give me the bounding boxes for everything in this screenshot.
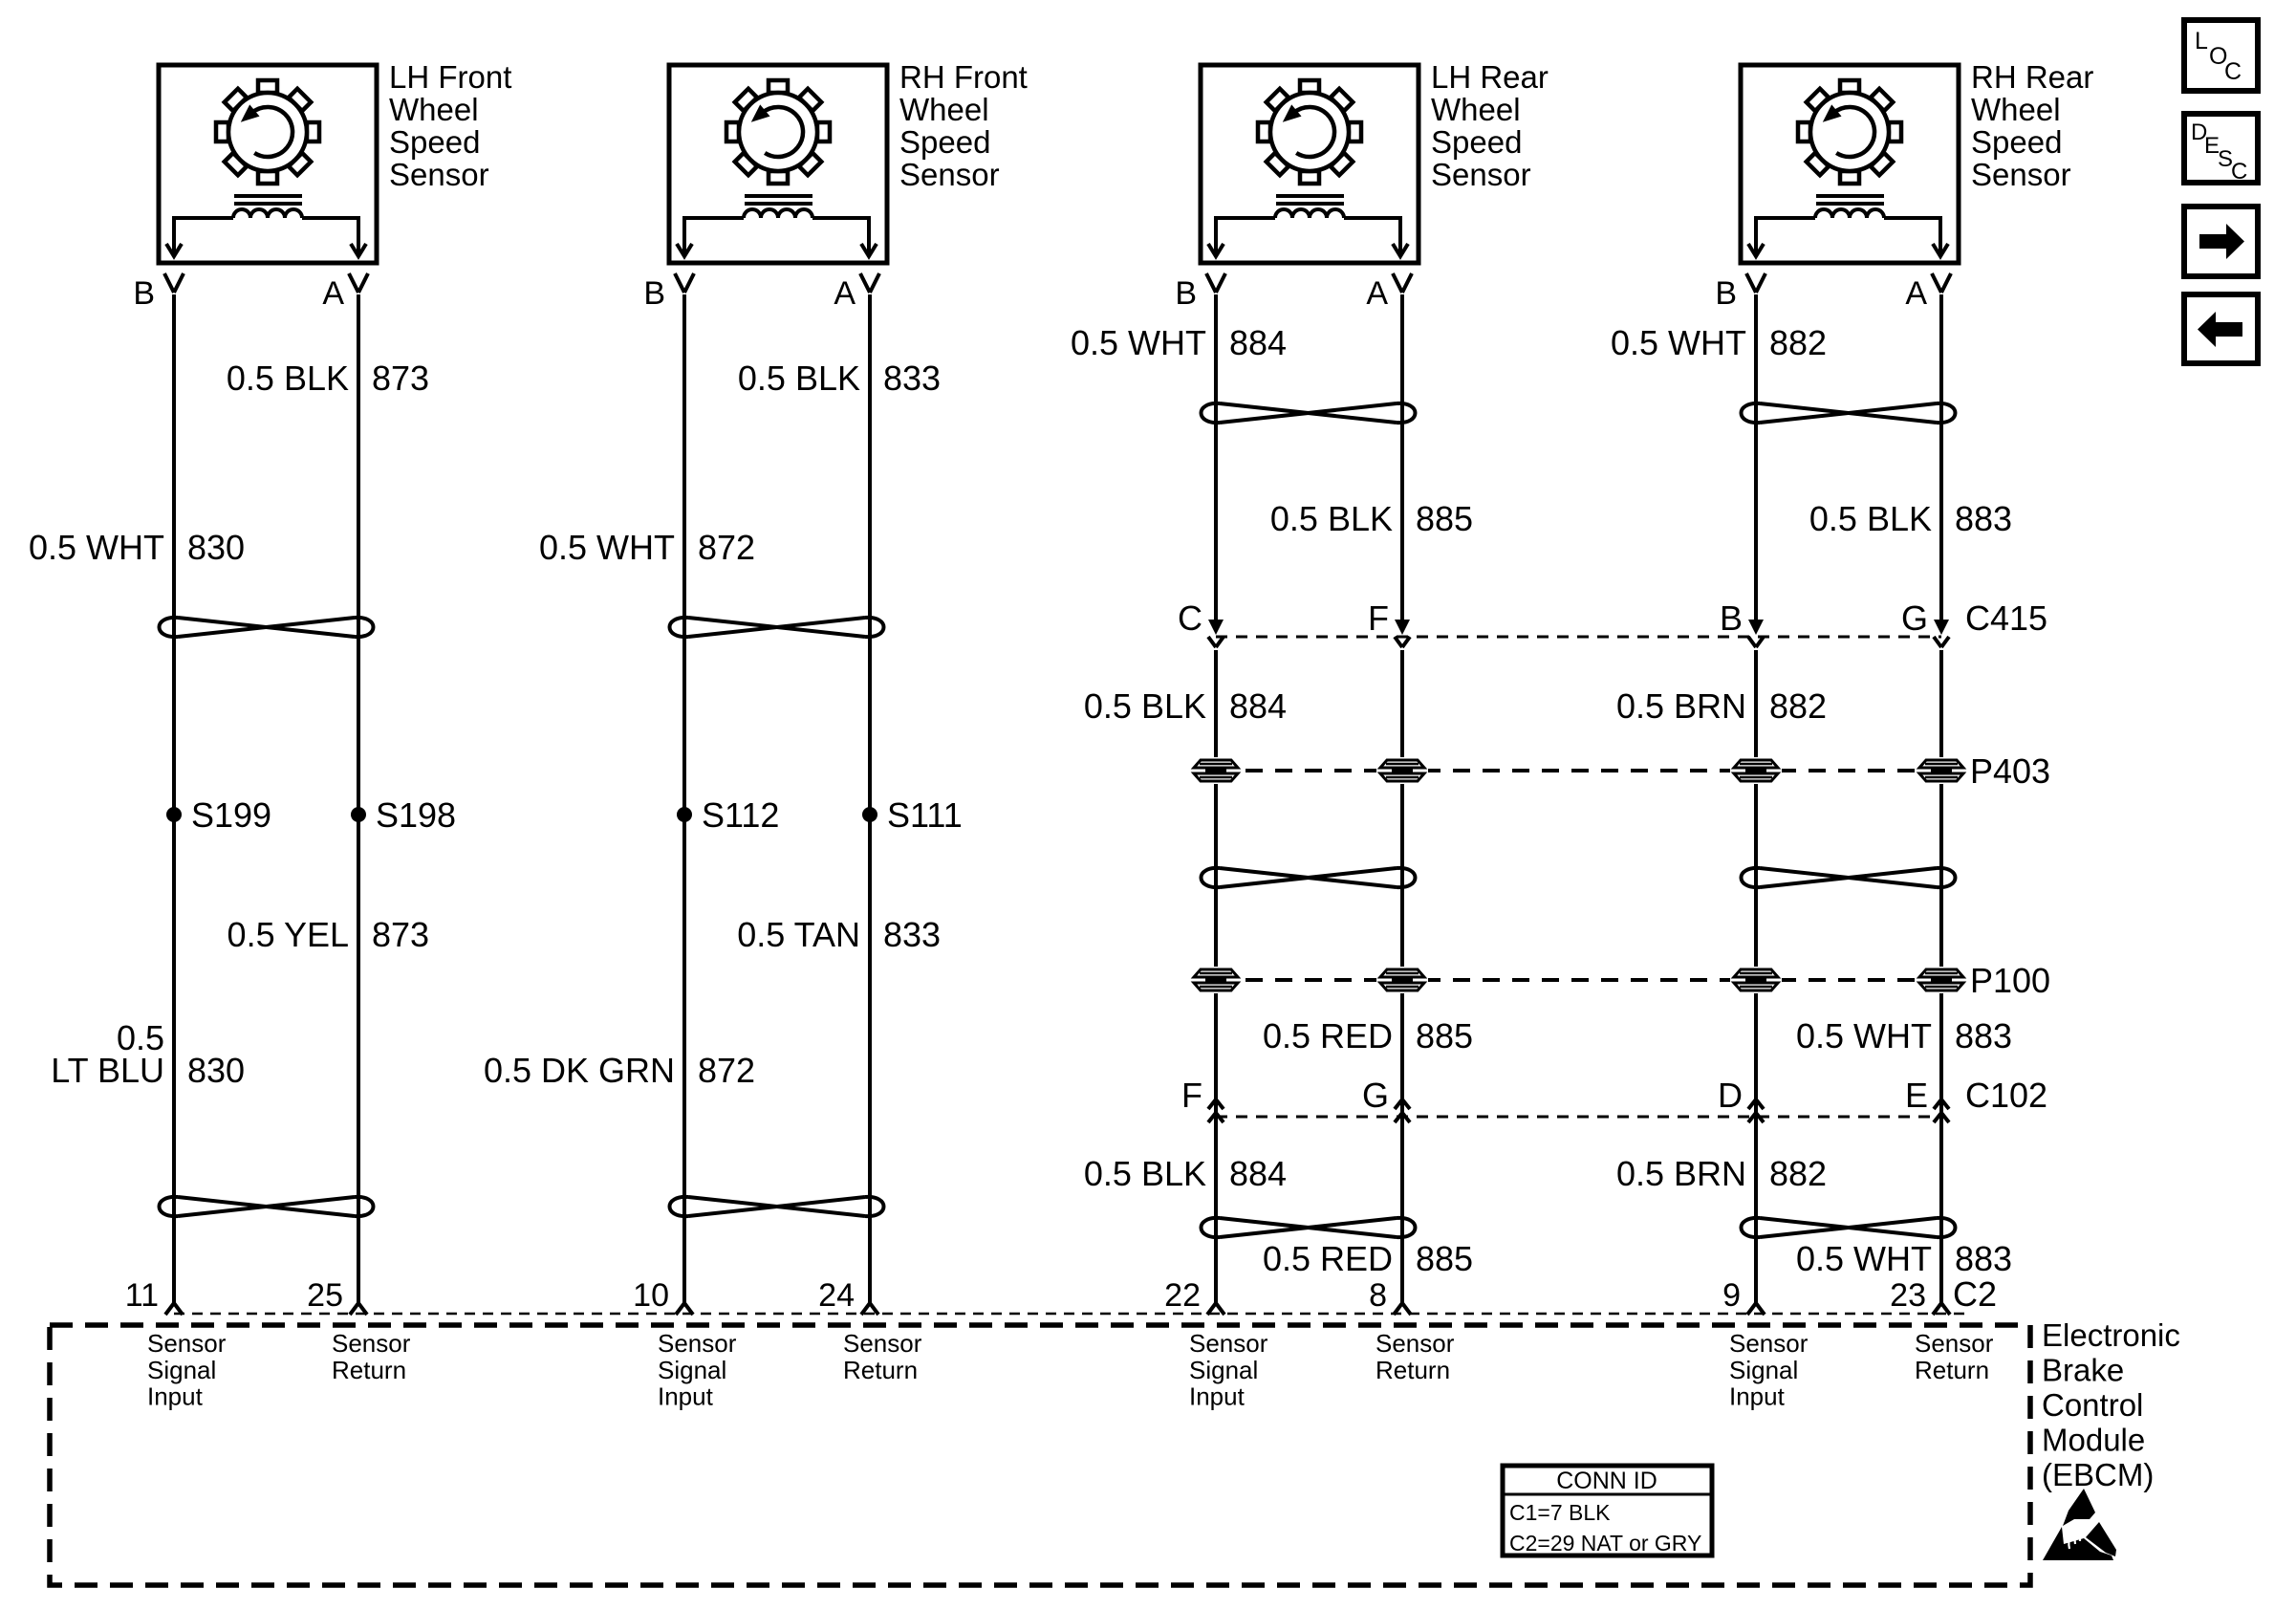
svg-text:873: 873 — [372, 915, 429, 954]
svg-text:Sensor: Sensor — [899, 157, 1000, 192]
twisted pair symbol at (1272,1284) — [1202, 1218, 1416, 1237]
svg-text:0.5 DK GRN: 0.5 DK GRN — [484, 1051, 675, 1090]
twisted pair symbol at (1272,918) — [1202, 868, 1416, 887]
svg-text:Input: Input — [147, 1382, 204, 1411]
svg-text:B: B — [1175, 275, 1197, 312]
svg-text:882: 882 — [1769, 686, 1827, 726]
svg-text:LH Rear: LH Rear — [1431, 59, 1549, 95]
wire RH front return x=910 y 308-1363 — [868, 294, 872, 1303]
label Sensor Signal Input at x=1272 — [1189, 1329, 1268, 1411]
svg-text:Electronic: Electronic — [2042, 1317, 2180, 1353]
connector C102 pin G chevrons — [1395, 1099, 1410, 1122]
CONN ID table — [1503, 1466, 1712, 1556]
connector fork at EBCM x=1272 — [1207, 1303, 1224, 1315]
svg-text:833: 833 — [883, 359, 941, 398]
connector fork at EBCM x=1467 — [1394, 1303, 1411, 1315]
svg-text:Wheel: Wheel — [389, 92, 479, 127]
svg-text:B: B — [1715, 275, 1737, 312]
twisted pair symbol at (1837,918) — [1742, 868, 1956, 887]
svg-text:Wheel: Wheel — [899, 92, 989, 127]
connector P100 pass-through at x=1272 — [1190, 967, 1242, 993]
label 0.5 WHT 883 lower — [1796, 1239, 2012, 1278]
connector fork at EBCM x=716 — [676, 1303, 693, 1315]
svg-text:Wheel: Wheel — [1971, 92, 2061, 127]
svg-text:Sensor: Sensor — [1729, 1329, 1809, 1358]
sensor RH Front Wheel Speed Sensor — [669, 65, 887, 263]
connector fork at EBCM x=182 — [165, 1303, 183, 1315]
wire LH rear signal x=1272 y 680-1363 — [1214, 650, 1218, 1303]
svg-text:884: 884 — [1229, 1154, 1287, 1193]
ESD sensitivity symbol — [2043, 1489, 2116, 1560]
svg-text:Brake: Brake — [2042, 1353, 2124, 1388]
label 0.5 YEL 873 lower — [227, 915, 430, 954]
svg-text:RH Rear: RH Rear — [1971, 59, 2093, 95]
svg-text:E: E — [1905, 1076, 1928, 1115]
svg-text:23: 23 — [1890, 1277, 1926, 1314]
twisted pair symbol at (182,1262) — [160, 1197, 374, 1216]
svg-text:G: G — [1362, 1076, 1389, 1115]
EBCM module dashed box — [50, 1325, 2030, 1585]
svg-text:C: C — [2224, 58, 2242, 85]
twisted pair symbol at (1837,1284) — [1742, 1218, 1956, 1237]
connector fork pin under sensor at x=375 — [349, 273, 368, 293]
svg-text:Signal: Signal — [1189, 1356, 1258, 1384]
connector C102 pin E chevrons — [1934, 1099, 1949, 1122]
svg-text:Input: Input — [1729, 1382, 1786, 1411]
svg-text:A: A — [1905, 275, 1927, 312]
svg-text:C2=29 NAT or GRY: C2=29 NAT or GRY — [1509, 1531, 1701, 1556]
label 0.5 RED 885 mid — [1263, 1016, 1473, 1055]
connector fork at EBCM x=375 — [350, 1303, 367, 1315]
label 0.5 DK GRN 872 lower — [484, 1051, 755, 1090]
sensor RH Rear Wheel Speed Sensor — [1741, 65, 1959, 263]
label 0.5 BRN 882 mid — [1616, 686, 1827, 726]
connector P403 pass-through at x=2031 — [1916, 757, 1967, 784]
label 0.5 WHT 882 upper — [1611, 323, 1827, 362]
left arrow icon — [2184, 294, 2258, 363]
connector C415 dashed line — [1216, 636, 1941, 639]
twisted pair symbol at (716,1262) — [670, 1197, 884, 1216]
label 0.5 TAN 833 lower — [737, 915, 941, 954]
connector C415 pin C female fork — [1208, 637, 1224, 647]
label Sensor Return at x=2031 — [1915, 1329, 1994, 1384]
svg-text:Sensor: Sensor — [147, 1329, 227, 1358]
svg-text:0.5 BLK: 0.5 BLK — [227, 359, 349, 398]
connector P403 dashed line — [1216, 769, 1941, 772]
twisted pair symbol at (182,656) — [160, 618, 374, 637]
svg-text:F: F — [1368, 598, 1389, 638]
svg-text:11: 11 — [125, 1277, 159, 1314]
label 0.5 WHT 883 mid — [1796, 1016, 2012, 1055]
twisted pair symbol at (716,656) — [670, 618, 884, 637]
svg-text:C2: C2 — [1953, 1274, 1997, 1314]
wire LH front signal x=182 y 308-1363 — [172, 294, 176, 1303]
wire RH rear signal x=1837 y 308-648 — [1754, 294, 1758, 620]
connector P100 dashed line — [1216, 978, 1941, 982]
wire RH rear return x=2031 y 308-648 — [1939, 294, 1943, 620]
label 0.5 BLK 873 upper — [227, 359, 429, 398]
svg-text:F: F — [1181, 1076, 1202, 1115]
svg-text:S112: S112 — [702, 795, 779, 835]
svg-text:Control: Control — [2042, 1387, 2143, 1423]
svg-text:0.5 BLK: 0.5 BLK — [738, 359, 860, 398]
svg-text:884: 884 — [1229, 686, 1287, 726]
svg-text:0.5 WHT: 0.5 WHT — [1796, 1239, 1932, 1278]
wire LH rear return x=1467 y 680-1363 — [1400, 650, 1404, 1303]
svg-text:P100: P100 — [1970, 961, 2050, 1000]
label Sensor Signal Input at x=1837 — [1729, 1329, 1809, 1411]
label Sensor Signal Input at x=716 — [658, 1329, 737, 1411]
connector fork at EBCM x=2031 — [1933, 1303, 1950, 1315]
label 0.5 BRN 882 lower — [1616, 1154, 1827, 1193]
svg-text:LT BLU: LT BLU — [51, 1051, 164, 1090]
svg-text:883: 883 — [1955, 1016, 2012, 1055]
svg-text:Sensor: Sensor — [1375, 1329, 1455, 1358]
splice S198 — [351, 795, 456, 835]
svg-text:883: 883 — [1955, 1239, 2012, 1278]
label Sensor Return at x=375 — [332, 1329, 411, 1384]
connector fork at EBCM x=910 — [861, 1303, 878, 1315]
svg-text:Return: Return — [1375, 1356, 1450, 1384]
svg-text:Sensor: Sensor — [1189, 1329, 1268, 1358]
connector C415 pin F female fork — [1395, 637, 1410, 647]
svg-text:0.5 BLK: 0.5 BLK — [1809, 499, 1932, 538]
svg-text:0.5 BLK: 0.5 BLK — [1084, 1154, 1206, 1193]
label LH Rear Wheel Speed Sensor — [1431, 59, 1549, 192]
label 0.5 BLK 884 mid — [1084, 686, 1287, 726]
connector fork pin under sensor at x=1272 — [1206, 273, 1225, 293]
LOC icon — [2184, 20, 2258, 91]
svg-text:Input: Input — [1189, 1382, 1245, 1411]
wire LH front return x=375 y 308-1363 — [357, 294, 360, 1303]
svg-text:0.5 RED: 0.5 RED — [1263, 1239, 1393, 1278]
label 0.5 BLK 883 upper — [1809, 499, 2012, 538]
svg-text:S111: S111 — [887, 795, 963, 835]
label Sensor Signal Input at x=182 — [147, 1329, 227, 1411]
svg-text:P403: P403 — [1970, 751, 2050, 791]
svg-text:C: C — [2231, 159, 2247, 185]
svg-text:0.5 WHT: 0.5 WHT — [539, 528, 675, 567]
svg-text:Speed: Speed — [899, 124, 990, 160]
connector fork pin under sensor at x=1467 — [1393, 273, 1412, 293]
svg-text:0.5 WHT: 0.5 WHT — [1796, 1016, 1932, 1055]
svg-text:C: C — [1178, 598, 1202, 638]
connector C102 dashed line — [1216, 1116, 1941, 1119]
connector C415 pin G male arrow — [1934, 620, 1949, 635]
svg-text:872: 872 — [698, 528, 755, 567]
svg-text:882: 882 — [1769, 323, 1827, 362]
label 0.5 RED 885 lower — [1263, 1239, 1473, 1278]
svg-text:B: B — [643, 275, 665, 312]
svg-text:B: B — [1720, 598, 1743, 638]
svg-text:Speed: Speed — [1971, 124, 2062, 160]
label LH Front Wheel Speed Sensor — [389, 59, 511, 192]
svg-text:0.5 TAN: 0.5 TAN — [737, 915, 860, 954]
connector C415 pin B female fork — [1748, 637, 1764, 647]
svg-text:872: 872 — [698, 1051, 755, 1090]
svg-text:Speed: Speed — [389, 124, 480, 160]
connector C102 pin F chevrons — [1208, 1099, 1224, 1122]
connector C102 pin D chevrons — [1748, 1099, 1764, 1122]
svg-text:24: 24 — [818, 1277, 855, 1314]
svg-text:A: A — [322, 275, 344, 312]
connector C2 dashed line — [174, 1313, 1969, 1316]
svg-text:885: 885 — [1416, 499, 1473, 538]
svg-text:882: 882 — [1769, 1154, 1827, 1193]
svg-text:CONN ID: CONN ID — [1556, 1468, 1657, 1494]
svg-text:Input: Input — [658, 1382, 714, 1411]
label 0.5 WHT 830 upper — [29, 528, 245, 567]
sensor LH Rear Wheel Speed Sensor — [1201, 65, 1419, 263]
connector P100 pass-through at x=2031 — [1916, 967, 1967, 993]
label RH Front Wheel Speed Sensor — [899, 59, 1028, 192]
connector P403 pass-through at x=1837 — [1730, 757, 1782, 784]
wire LH rear return x=1467 y 308-648 — [1400, 294, 1404, 620]
svg-text:885: 885 — [1416, 1016, 1473, 1055]
connector C415 pin G female fork — [1934, 637, 1949, 647]
svg-text:C1=7 BLK: C1=7 BLK — [1509, 1500, 1611, 1525]
svg-text:B: B — [133, 275, 155, 312]
svg-text:884: 884 — [1229, 323, 1287, 362]
svg-text:830: 830 — [187, 528, 245, 567]
svg-text:0.5 BRN: 0.5 BRN — [1616, 686, 1746, 726]
svg-text:Sensor: Sensor — [1971, 157, 2071, 192]
svg-text:0.5 BLK: 0.5 BLK — [1270, 499, 1393, 538]
svg-text:873: 873 — [372, 359, 429, 398]
svg-text:9: 9 — [1722, 1277, 1741, 1314]
connector P100 pass-through at x=1837 — [1730, 967, 1782, 993]
svg-text:Speed: Speed — [1431, 124, 1522, 160]
svg-text:LH Front: LH Front — [389, 59, 511, 95]
label 0.5 LT BLU 830 lower — [51, 1018, 245, 1090]
svg-text:830: 830 — [187, 1051, 245, 1090]
wire LH rear signal x=1272 y 308-648 — [1214, 294, 1218, 620]
svg-text:RH Front: RH Front — [899, 59, 1028, 95]
svg-text:0.5 WHT: 0.5 WHT — [29, 528, 164, 567]
svg-text:S199: S199 — [191, 795, 271, 835]
svg-text:C102: C102 — [1965, 1076, 2047, 1115]
DESC icon — [2184, 114, 2258, 185]
svg-text:Return: Return — [1915, 1356, 1989, 1384]
svg-text:10: 10 — [633, 1277, 669, 1314]
twisted pair symbol at (1272,432) — [1202, 403, 1416, 423]
svg-text:Return: Return — [332, 1356, 406, 1384]
svg-text:Sensor: Sensor — [332, 1329, 411, 1358]
svg-text:883: 883 — [1955, 499, 2012, 538]
svg-text:25: 25 — [307, 1277, 343, 1314]
svg-text:Sensor: Sensor — [1431, 157, 1531, 192]
svg-text:S198: S198 — [376, 795, 456, 835]
connector fork pin under sensor at x=2031 — [1932, 273, 1951, 293]
svg-text:Sensor: Sensor — [389, 157, 489, 192]
connector C415 pin F male arrow — [1395, 620, 1410, 635]
svg-text:(EBCM): (EBCM) — [2042, 1457, 2154, 1492]
wire RH rear return x=2031 y 680-1363 — [1939, 650, 1943, 1303]
connector P403 pass-through at x=1272 — [1190, 757, 1242, 784]
svg-text:L: L — [2195, 28, 2208, 54]
svg-text:0.5 WHT: 0.5 WHT — [1611, 323, 1746, 362]
label 0.5 WHT 872 upper — [539, 528, 755, 567]
splice S111 — [862, 795, 963, 835]
splice S199 — [166, 795, 271, 835]
connector fork at EBCM x=1837 — [1747, 1303, 1765, 1315]
twisted pair symbol at (1837,432) — [1742, 403, 1956, 423]
svg-text:G: G — [1901, 598, 1928, 638]
splice S112 — [677, 795, 779, 835]
svg-text:Module: Module — [2042, 1423, 2145, 1458]
svg-text:Wheel: Wheel — [1431, 92, 1521, 127]
svg-text:Signal: Signal — [658, 1356, 726, 1384]
svg-text:Sensor: Sensor — [1915, 1329, 1994, 1358]
svg-text:A: A — [834, 275, 856, 312]
label 0.5 WHT 884 upper — [1071, 323, 1287, 362]
svg-text:C415: C415 — [1965, 598, 2047, 638]
svg-text:D: D — [1718, 1076, 1743, 1115]
connector fork pin under sensor at x=716 — [675, 273, 694, 293]
label Sensor Return at x=910 — [843, 1329, 922, 1384]
svg-text:0.5 WHT: 0.5 WHT — [1071, 323, 1206, 362]
label Sensor Return at x=1467 — [1375, 1329, 1455, 1384]
svg-text:A: A — [1366, 275, 1388, 312]
wire RH front signal x=716 y 308-1363 — [682, 294, 686, 1303]
label RH Rear Wheel Speed Sensor — [1971, 59, 2093, 192]
connector C415 pin C male arrow — [1208, 620, 1224, 635]
svg-text:Signal: Signal — [147, 1356, 216, 1384]
svg-text:0.5 YEL: 0.5 YEL — [227, 915, 349, 954]
svg-text:0.5 RED: 0.5 RED — [1263, 1016, 1393, 1055]
label 0.5 BLK 885 upper — [1270, 499, 1473, 538]
connector P100 pass-through at x=1467 — [1376, 967, 1428, 993]
svg-text:885: 885 — [1416, 1239, 1473, 1278]
svg-text:Signal: Signal — [1729, 1356, 1798, 1384]
svg-text:0.5 BRN: 0.5 BRN — [1616, 1154, 1746, 1193]
connector fork pin under sensor at x=182 — [164, 273, 184, 293]
label Electronic Brake Control Module (EBCM) — [2042, 1317, 2180, 1492]
connector C415 pin B male arrow — [1748, 620, 1764, 635]
svg-text:833: 833 — [883, 915, 941, 954]
sensor LH Front Wheel Speed Sensor — [159, 65, 377, 263]
svg-text:Return: Return — [843, 1356, 918, 1384]
svg-text:22: 22 — [1164, 1277, 1201, 1314]
svg-text:8: 8 — [1369, 1277, 1387, 1314]
svg-text:0.5 BLK: 0.5 BLK — [1084, 686, 1206, 726]
label 0.5 BLK 833 upper — [738, 359, 941, 398]
svg-text:Sensor: Sensor — [658, 1329, 737, 1358]
connector P403 pass-through at x=1467 — [1376, 757, 1428, 784]
connector fork pin under sensor at x=910 — [860, 273, 879, 293]
right arrow icon — [2184, 207, 2258, 276]
label 0.5 BLK 884 lower — [1084, 1154, 1287, 1193]
svg-text:Sensor: Sensor — [843, 1329, 922, 1358]
connector fork pin under sensor at x=1837 — [1746, 273, 1765, 293]
wire RH rear signal x=1837 y 680-1363 — [1754, 650, 1758, 1303]
